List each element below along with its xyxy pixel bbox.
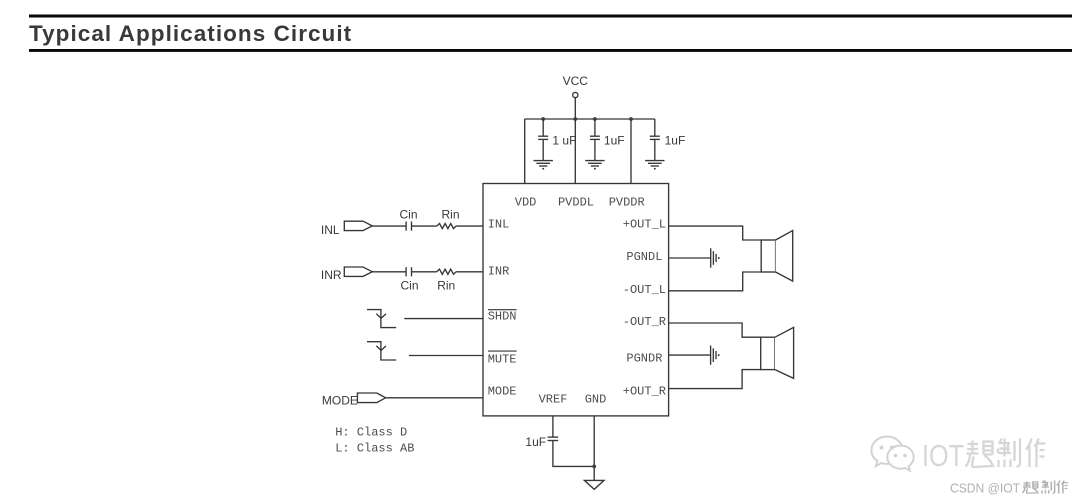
- speaker LS2: [761, 327, 794, 378]
- wire supply bus: [525, 118, 655, 120]
- wire VREF pin down: [552, 416, 554, 437]
- svg-text:Cin: Cin: [400, 207, 418, 221]
- wire INL to Cin: [372, 225, 405, 227]
- junction dot: [593, 117, 597, 121]
- small CJK strokes: [1022, 481, 1068, 494]
- svg-text:L: Class AB: L: Class AB: [335, 441, 414, 455]
- resistor Rin (L): [437, 224, 456, 229]
- svg-text:H: Class D: H: Class D: [335, 426, 407, 440]
- svg-text:INR: INR: [488, 264, 510, 278]
- wire +OUT_L to speaker: [669, 226, 762, 240]
- ground PGNDR (rotated): [711, 345, 719, 364]
- wire INR to Cin: [372, 271, 405, 273]
- svg-text:INR: INR: [321, 268, 342, 282]
- switch S1 (SHDN): [367, 310, 396, 328]
- watermark CJK glyph zuo: [1026, 439, 1046, 468]
- wire C4 to GND net: [553, 441, 594, 467]
- svg-text:INL: INL: [321, 223, 340, 237]
- svg-text:INL: INL: [488, 218, 510, 232]
- svg-text:PVDDR: PVDDR: [609, 196, 645, 210]
- svg-text:GND: GND: [585, 393, 607, 407]
- ground triangle: [584, 480, 604, 489]
- ground PGNDL (rotated): [711, 248, 719, 267]
- speaker LS1: [761, 231, 793, 282]
- wire MODE to pin: [386, 397, 483, 399]
- capacitor C2 1uF: [590, 119, 600, 160]
- op-amp U1 IC body: [483, 184, 669, 416]
- svg-text:PVDDL: PVDDL: [558, 196, 594, 210]
- ground under C2: [585, 161, 604, 169]
- svg-text:-OUT_L: -OUT_L: [623, 283, 666, 297]
- svg-text:MUTE: MUTE: [488, 352, 517, 366]
- svg-text:Rin: Rin: [437, 279, 455, 293]
- wire +OUT_R to speaker: [669, 370, 761, 389]
- svg-text:1uF: 1uF: [665, 134, 686, 148]
- svg-text:Rin: Rin: [442, 207, 460, 221]
- svg-text:MODE: MODE: [488, 385, 517, 399]
- junction dot: [573, 117, 577, 121]
- svg-text:CSDN @IOT: CSDN @IOT: [950, 481, 1020, 496]
- svg-text:Cin: Cin: [401, 279, 419, 293]
- wire Rin to INR pin: [456, 271, 483, 273]
- watermark CJK glyph zhi: [998, 439, 1020, 468]
- watermark CJK glyph qu: [966, 441, 994, 468]
- junction dot: [541, 117, 545, 121]
- svg-text:SHDN: SHDN: [488, 310, 517, 324]
- wire Rin to INL pin: [456, 225, 483, 227]
- ground under C3: [645, 161, 664, 169]
- svg-text:VDD: VDD: [515, 196, 537, 210]
- svg-text:MODE: MODE: [322, 393, 358, 407]
- wire Cin to Rin (R): [412, 271, 437, 273]
- svg-text:-OUT_R: -OUT_R: [623, 315, 666, 329]
- wire VCC to bus: [574, 98, 576, 119]
- overline MUTE: [488, 350, 517, 352]
- svg-text:1uF: 1uF: [604, 134, 625, 148]
- connector flag INR: [344, 267, 372, 276]
- svg-text:1uF: 1uF: [525, 435, 546, 449]
- overline SHDN: [488, 309, 517, 311]
- title rule top: [29, 15, 1072, 18]
- junction dot GND net: [592, 465, 596, 469]
- wire bus to PVDDR pin: [630, 119, 632, 184]
- ground under C1: [534, 161, 553, 169]
- svg-text:VCC: VCC: [563, 74, 589, 88]
- svg-text:Typical Applications Circuit: Typical Applications Circuit: [29, 21, 352, 46]
- svg-text:IOT: IOT: [922, 438, 964, 473]
- junction dot: [629, 117, 633, 121]
- switch S2 (MUTE): [367, 342, 396, 360]
- svg-text:VREF: VREF: [539, 393, 568, 407]
- svg-text:PGNDL: PGNDL: [626, 250, 662, 264]
- wire to MUTE pin: [409, 355, 483, 357]
- connector flag MODE: [357, 393, 385, 403]
- wire bus to VDD pin: [524, 119, 526, 184]
- svg-text:1 uF: 1 uF: [552, 134, 576, 148]
- wire to SHDN pin: [404, 318, 483, 320]
- title rule bottom: [29, 49, 1072, 52]
- svg-text:+OUT_L: +OUT_L: [623, 218, 666, 232]
- connector flag INL: [344, 221, 372, 230]
- capacitor Cin (L): [406, 222, 411, 231]
- svg-text:+OUT_R: +OUT_R: [623, 385, 666, 399]
- wire bus to PVDDL pin: [574, 119, 576, 184]
- wire -OUT_R to speaker: [669, 323, 761, 337]
- capacitor Cin (R): [406, 267, 411, 276]
- wire -OUT_L to speaker: [669, 272, 762, 291]
- capacitor C4 1uF (VREF): [548, 437, 559, 440]
- svg-text:PGNDR: PGNDR: [626, 352, 662, 366]
- watermark logo (chat bubbles): [871, 436, 913, 470]
- wire Cin to Rin: [412, 225, 437, 227]
- wire PGNDL: [669, 257, 711, 259]
- VCC terminal circle: [573, 92, 578, 97]
- capacitor C1 1uF: [538, 119, 548, 160]
- wire GND pin down: [593, 416, 595, 481]
- capacitor C3 1uF: [650, 119, 660, 160]
- wire PGNDR: [669, 354, 711, 356]
- resistor Rin (R): [437, 269, 456, 274]
